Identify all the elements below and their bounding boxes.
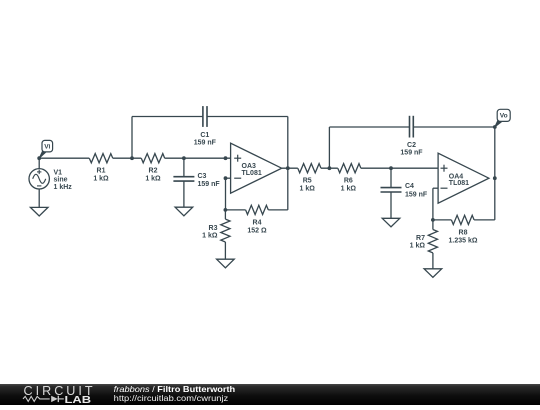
svg-text:1 kΩ: 1 kΩ — [300, 185, 316, 192]
svg-text:R3: R3 — [209, 225, 218, 232]
svg-text:R4: R4 — [253, 220, 262, 227]
svg-text:TL081: TL081 — [242, 170, 262, 177]
svg-text:1 kΩ: 1 kΩ — [202, 233, 218, 240]
svg-text:R7: R7 — [416, 235, 425, 242]
svg-text:159 nF: 159 nF — [400, 149, 423, 156]
svg-text:1 kΩ: 1 kΩ — [145, 175, 161, 182]
svg-text:159 nF: 159 nF — [405, 191, 428, 198]
svg-text:C2: C2 — [407, 142, 416, 149]
svg-text:1 kΩ: 1 kΩ — [93, 175, 109, 182]
svg-text:TL081: TL081 — [449, 180, 469, 187]
svg-text:Vo: Vo — [500, 113, 508, 120]
svg-text:C4: C4 — [405, 183, 414, 190]
svg-text:R2: R2 — [149, 168, 158, 175]
svg-text:1.235 kΩ: 1.235 kΩ — [449, 238, 478, 245]
svg-text:sine: sine — [54, 177, 68, 184]
svg-text:R6: R6 — [344, 178, 353, 185]
svg-text:1 kHz: 1 kHz — [54, 184, 73, 191]
svg-text:http://circuitlab.com/cwrunjz: http://circuitlab.com/cwrunjz — [114, 393, 229, 403]
svg-text:V1: V1 — [54, 169, 63, 176]
svg-text:1 kΩ: 1 kΩ — [410, 243, 426, 250]
svg-text:152 Ω: 152 Ω — [247, 227, 267, 234]
svg-text:Vi: Vi — [44, 144, 50, 151]
svg-text:159 nF: 159 nF — [198, 181, 221, 188]
svg-text:R8: R8 — [459, 230, 468, 237]
svg-text:LAB: LAB — [65, 395, 92, 405]
svg-text:R5: R5 — [303, 178, 312, 185]
svg-text:R1: R1 — [97, 168, 106, 175]
svg-text:1 kΩ: 1 kΩ — [341, 185, 357, 192]
svg-text:C3: C3 — [198, 173, 207, 180]
svg-text:159 nF: 159 nF — [194, 140, 217, 147]
svg-text:C1: C1 — [200, 132, 209, 139]
